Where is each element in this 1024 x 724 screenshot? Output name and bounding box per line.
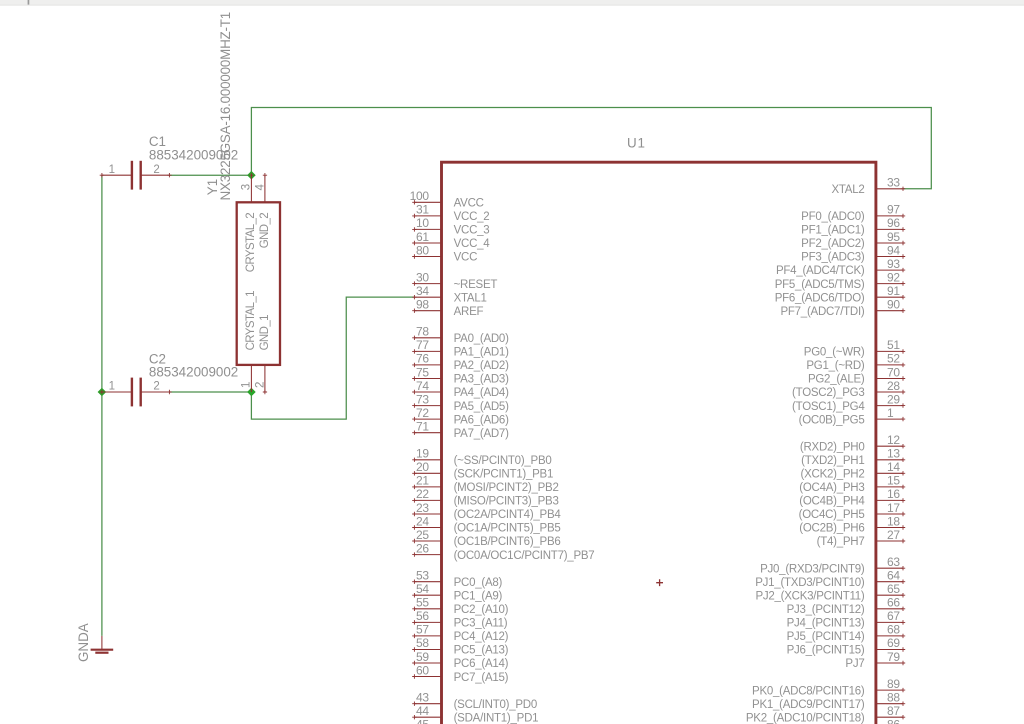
U1 pin 12 ((RXD2)_PH0) right (800, 433, 905, 453)
U1 pin 23 ((OC2A/PCINT4)_PB4) left (412, 501, 561, 521)
svg-text:28: 28 (887, 379, 900, 393)
svg-text:66: 66 (887, 596, 900, 610)
svg-text:(SDA/INT1)_PD1: (SDA/INT1)_PD1 (454, 712, 539, 724)
wire net XTAL2: junction A up, across top, down to pin 33 (251, 107, 931, 188)
svg-text:NX3225GSA-16.000000MHZ-T1: NX3225GSA-16.000000MHZ-T1 (218, 12, 233, 201)
svg-text:PJ3_(PCINT12): PJ3_(PCINT12) (787, 604, 865, 616)
U1 pin 79 (PJ7) right (845, 650, 905, 670)
svg-text:88: 88 (887, 691, 900, 705)
U1 pin 15 ((OC4A)_PH3) right (799, 474, 905, 494)
svg-text:27: 27 (887, 528, 900, 542)
svg-text:PF7_(ADC7/TDI): PF7_(ADC7/TDI) (780, 306, 864, 318)
U1 pin 92 (PF5_(ADC5/TMS)) right (775, 270, 905, 290)
svg-text:2: 2 (153, 381, 159, 393)
svg-text:U1: U1 (627, 136, 646, 151)
svg-text:PA5_(AD5): PA5_(AD5) (454, 401, 509, 413)
wire net XTAL1: crystal pin1 junction B down, right, up to U1 pin 34 (251, 297, 414, 419)
svg-text:(OC1A/PCINT5)_PB5: (OC1A/PCINT5)_PB5 (454, 523, 561, 535)
svg-text:PF2_(ADC2): PF2_(ADC2) (801, 238, 865, 250)
svg-text:15: 15 (887, 474, 900, 488)
svg-text:43: 43 (416, 691, 429, 705)
svg-text:(T4)_PH7: (T4)_PH7 (817, 536, 865, 548)
U1 pin 13 ((TXD2)_PH1) right (801, 447, 905, 467)
svg-text:3: 3 (240, 184, 252, 190)
svg-text:PJ1_(TXD3/PCINT10): PJ1_(TXD3/PCINT10) (755, 577, 865, 589)
U1 pin 86 (PK3_(ADC11/PCINT19)) right (747, 718, 905, 724)
svg-text:PJ4_(PCINT13): PJ4_(PCINT13) (787, 618, 865, 630)
svg-text:AREF: AREF (454, 306, 484, 318)
U1 pin 53 (PC0_(A8)) left (412, 569, 502, 589)
svg-text:PC0_(A8): PC0_(A8) (454, 577, 503, 589)
svg-text:51: 51 (887, 338, 900, 352)
U1 pin 72 (PA6_(AD6)) left (412, 406, 509, 426)
U1 pin 65 (PJ2_(XCK3/PCINT11)) right (755, 582, 905, 603)
U1 pin 59 (PC6_(A14)) left (412, 650, 508, 670)
U1 pin 87 (PK2_(ADC10/PCINT18)) right (746, 704, 905, 724)
svg-text:93: 93 (887, 257, 900, 271)
U1 pin 26 ((OC0A/OC1C/PCINT7)_PB7) left (412, 541, 594, 561)
crystal Y1 pin 2 (bottom, GND_1) (263, 365, 267, 394)
svg-text:PK1_(ADC9/PCINT17): PK1_(ADC9/PCINT17) (752, 699, 865, 711)
svg-text:GNDA: GNDA (76, 623, 91, 662)
svg-text:XTAL1: XTAL1 (454, 292, 487, 304)
svg-text:4: 4 (254, 184, 266, 191)
U1 pin 63 (PJ0_(RXD3/PCINT9)) right (760, 555, 905, 575)
svg-text:PC4_(A12): PC4_(A12) (454, 631, 509, 643)
svg-text:57: 57 (416, 623, 429, 637)
svg-text:98: 98 (416, 298, 429, 312)
svg-text:AVCC: AVCC (454, 198, 484, 210)
svg-text:(OC2B)_PH6: (OC2B)_PH6 (799, 523, 864, 535)
svg-text:PF0_(ADC0): PF0_(ADC0) (801, 211, 865, 223)
svg-text:VCC_4: VCC_4 (454, 238, 491, 250)
U1 pin 56 (PC3_(A11)) left (412, 609, 508, 630)
svg-text:GND_1: GND_1 (259, 315, 271, 351)
U1 pin 96 (PF1_(ADC1)) right (801, 216, 905, 236)
U1 pin 25 ((OC1B/PCINT6)_PB6) left (412, 528, 560, 548)
svg-text:CRYSTAL_1: CRYSTAL_1 (245, 291, 257, 351)
svg-text:(OC0A/OC1C/PCINT7)_PB7: (OC0A/OC1C/PCINT7)_PB7 (454, 550, 595, 562)
U1 pin 43 ((SCL/INT0)_PD0) left (412, 691, 537, 711)
svg-text:(~SS/PCINT0)_PB0: (~SS/PCINT0)_PB0 (454, 455, 552, 467)
svg-text:90: 90 (887, 298, 900, 312)
U1 pin 93 (PF4_(ADC4/TCK)) right (776, 257, 905, 277)
svg-text:PF5_(ADC5/TMS): PF5_(ADC5/TMS) (775, 279, 865, 291)
svg-text:PJ5_(PCINT14): PJ5_(PCINT14) (787, 631, 865, 643)
U1 pin 58 (PC5_(A13)) left (412, 636, 508, 657)
U1 pin 78 (PA0_(AD0)) left (412, 325, 509, 345)
U1 pin 70 (PG2_(ALE)) right (808, 365, 905, 385)
svg-text:PF4_(ADC4/TCK): PF4_(ADC4/TCK) (776, 265, 865, 277)
svg-text:13: 13 (887, 447, 900, 461)
svg-text:71: 71 (416, 420, 429, 434)
svg-text:97: 97 (887, 203, 900, 217)
svg-text:(OC4C)_PH5: (OC4C)_PH5 (799, 509, 865, 521)
U1 pin 64 (PJ1_(TXD3/PCINT10)) right (755, 569, 905, 589)
svg-text:(OC2A/PCINT4)_PB4: (OC2A/PCINT4)_PB4 (454, 509, 562, 521)
svg-text:94: 94 (887, 243, 900, 257)
svg-text:PC3_(A11): PC3_(A11) (454, 618, 508, 630)
U1 pin 69 (PJ6_(PCINT15)) right (787, 636, 906, 657)
svg-text:74: 74 (416, 379, 429, 393)
U1 pin 97 (PF0_(ADC0)) right (801, 203, 905, 223)
svg-text:PG0_(~WR): PG0_(~WR) (804, 347, 865, 359)
crystal Y1 pin 3 (top, CRYSTAL_2) (249, 173, 253, 202)
wire C2 pin2 to junction B (169, 391, 251, 393)
svg-text:56: 56 (416, 609, 429, 623)
IC U1 ATmega2560 body (442, 162, 876, 724)
U1 pin 18 ((OC2B)_PH6) right (799, 514, 905, 534)
svg-text:73: 73 (416, 392, 429, 406)
U1 pin 71 (PA7_(AD7)) left (412, 420, 509, 440)
U1 pin 34 (XTAL1) left (412, 284, 486, 304)
U1 pin 52 (PG1_(~RD)) right (806, 352, 905, 372)
svg-text:65: 65 (887, 582, 900, 596)
U1 pin 20 ((SCK/PCINT1)_PB1) left (412, 460, 553, 480)
svg-text:PA6_(AD6): PA6_(AD6) (454, 414, 509, 426)
U1 pin 73 (PA5_(AD5)) left (412, 392, 509, 412)
svg-text:34: 34 (416, 284, 429, 298)
U1 pin 88 (PK1_(ADC9/PCINT17)) right (752, 691, 905, 711)
U1 pin 89 (PK0_(ADC8/PCINT16)) right (752, 677, 905, 697)
svg-text:72: 72 (416, 406, 429, 420)
svg-text:24: 24 (416, 514, 429, 528)
svg-text:(SCL/INT0)_PD0: (SCL/INT0)_PD0 (454, 699, 537, 711)
crystal Y1 pin 4 (top, GND_2) (263, 173, 267, 202)
svg-text:2: 2 (254, 382, 266, 388)
svg-text:25: 25 (416, 528, 429, 542)
U1 pin 57 (PC4_(A12)) left (412, 623, 508, 643)
svg-text:80: 80 (416, 243, 429, 257)
U1 pin 1 ((OC0B)_PG5) right (799, 406, 906, 426)
U1 pin 66 (PJ3_(PCINT12)) right (787, 596, 906, 616)
U1 pin 27 ((T4)_PH7) right (817, 528, 906, 548)
U1 pin 54 (PC1_(A9)) left (412, 582, 502, 603)
svg-text:20: 20 (416, 460, 429, 474)
svg-text:(OC0B)_PG5: (OC0B)_PG5 (799, 414, 865, 426)
U1 pin 98 (AREF) left (412, 298, 483, 318)
svg-text:18: 18 (887, 514, 900, 528)
svg-text:PC5_(A13): PC5_(A13) (454, 645, 509, 657)
svg-text:21: 21 (416, 474, 429, 488)
svg-text:78: 78 (416, 325, 429, 339)
svg-text:CRYSTAL_2: CRYSTAL_2 (245, 213, 257, 273)
svg-text:45: 45 (416, 718, 429, 724)
ground GNDA symbol (91, 636, 114, 653)
svg-text:30: 30 (416, 270, 429, 284)
svg-text:(MISO/PCINT3)_PB3: (MISO/PCINT3)_PB3 (454, 496, 559, 508)
U1 origin cross (656, 579, 663, 586)
U1 pin 67 (PJ4_(PCINT13)) right (787, 609, 906, 630)
U1 pin 31 (VCC_2) left (412, 203, 489, 223)
svg-text:95: 95 (887, 230, 900, 244)
svg-text:PF1_(ADC1): PF1_(ADC1) (801, 225, 865, 237)
svg-text:68: 68 (887, 623, 900, 637)
svg-text:PA4_(AD4): PA4_(AD4) (454, 387, 509, 399)
U1 pin 28 ((TOSC2)_PG3) right (792, 379, 905, 399)
svg-text:1: 1 (109, 164, 115, 176)
wire GNDA net: C1 pin1 down to ground symbol (101, 175, 103, 636)
svg-text:55: 55 (416, 596, 429, 610)
junction C (C2 pin1 / GNDA net) (98, 388, 107, 397)
svg-text:PA0_(AD0): PA0_(AD0) (454, 333, 509, 345)
U1 pin 22 ((MISO/PCINT3)_PB3) left (412, 487, 558, 507)
U1 pin 29 ((TOSC1)_PG4) right (792, 392, 905, 412)
svg-text:53: 53 (416, 569, 429, 583)
svg-text:PK2_(ADC10/PCINT18): PK2_(ADC10/PCINT18) (746, 712, 865, 724)
svg-text:~RESET: ~RESET (454, 279, 498, 291)
U1 pin 21 ((MOSI/PCINT2)_PB2) left (412, 474, 558, 494)
junction B (crystal pin1 / C2 / XTAL1) (247, 388, 256, 397)
junction A (crystal pin3 / C1 / XTAL2) (247, 171, 256, 180)
svg-text:63: 63 (887, 555, 900, 569)
svg-text:PA2_(AD2): PA2_(AD2) (454, 360, 509, 372)
svg-text:59: 59 (416, 650, 429, 664)
U1 pin 14 ((XCK2)_PH2) right (801, 460, 906, 480)
svg-text:PJ7: PJ7 (845, 658, 864, 670)
U1 pin 51 (PG0_(~WR)) right (804, 338, 905, 358)
svg-text:PC6_(A14): PC6_(A14) (454, 658, 509, 670)
svg-text:70: 70 (887, 365, 900, 379)
svg-text:PJ0_(RXD3/PCINT9): PJ0_(RXD3/PCINT9) (760, 563, 865, 575)
svg-text:PF3_(ADC3): PF3_(ADC3) (801, 252, 865, 264)
svg-text:10: 10 (416, 216, 429, 230)
svg-text:PC1_(A9): PC1_(A9) (454, 591, 503, 603)
svg-text:100: 100 (410, 189, 430, 203)
svg-text:23: 23 (416, 501, 429, 515)
svg-text:29: 29 (887, 392, 900, 406)
svg-text:(TOSC2)_PG3: (TOSC2)_PG3 (792, 387, 864, 399)
U1 pin 94 (PF3_(ADC3)) right (801, 243, 905, 263)
svg-text:22: 22 (416, 487, 429, 501)
U1 pin 80 (VCC) left (412, 243, 477, 263)
svg-text:(OC4B)_PH4: (OC4B)_PH4 (799, 496, 865, 508)
svg-text:PA1_(AD1): PA1_(AD1) (454, 347, 509, 359)
svg-text:PA7_(AD7): PA7_(AD7) (454, 428, 509, 440)
U1 pin 61 (VCC_4) left (412, 230, 490, 250)
svg-text:33: 33 (887, 176, 900, 190)
svg-text:1: 1 (109, 381, 115, 393)
svg-text:(OC1B/PCINT6)_PB6: (OC1B/PCINT6)_PB6 (454, 536, 561, 548)
U1 pin 24 ((OC1A/PCINT5)_PB5) left (412, 514, 560, 534)
U1 pin 19 ((~SS/PCINT0)_PB0) left (412, 447, 551, 467)
U1 pin 100 (AVCC) left (410, 189, 484, 209)
svg-text:52: 52 (887, 352, 900, 366)
svg-text:(SCK/PCINT1)_PB1: (SCK/PCINT1)_PB1 (454, 469, 554, 481)
svg-text:14: 14 (887, 460, 900, 474)
svg-text:12: 12 (887, 433, 900, 447)
svg-text:2: 2 (153, 164, 159, 176)
crystal Y1 body (237, 202, 280, 365)
U1 pin 44 ((SDA/INT1)_PD1) left (412, 704, 538, 724)
svg-text:64: 64 (887, 569, 900, 583)
svg-text:19: 19 (416, 447, 429, 461)
wire C1 pin2 to junction A (169, 174, 251, 176)
svg-text:PC2_(A10): PC2_(A10) (454, 604, 509, 616)
svg-text:PF6_(ADC6/TDO): PF6_(ADC6/TDO) (775, 292, 865, 304)
svg-text:67: 67 (887, 609, 900, 623)
svg-text:75: 75 (416, 365, 429, 379)
svg-text:96: 96 (887, 216, 900, 230)
U1 pin 10 (VCC_3) left (412, 216, 489, 236)
U1 pin 76 (PA2_(AD2)) left (412, 352, 509, 372)
crystal Y1 pin 1 (bottom, CRYSTAL_1) (250, 365, 252, 392)
svg-text:76: 76 (416, 352, 429, 366)
U1 pin 74 (PA4_(AD4)) left (412, 379, 509, 399)
svg-text:PC7_(A15): PC7_(A15) (454, 672, 509, 684)
U1 pin 91 (PF6_(ADC6/TDO)) right (775, 284, 905, 304)
svg-text:PJ2_(XCK3/PCINT11): PJ2_(XCK3/PCINT11) (755, 591, 864, 603)
svg-text:PK0_(ADC8/PCINT16): PK0_(ADC8/PCINT16) (752, 685, 865, 697)
U1 pin 75 (PA3_(AD3)) left (412, 365, 509, 385)
U1 pin 77 (PA1_(AD1)) left (412, 338, 509, 358)
U1 pin 16 ((OC4B)_PH4) right (799, 487, 905, 507)
U1 pin 95 (PF2_(ADC2)) right (801, 230, 905, 250)
svg-text:87: 87 (887, 704, 900, 718)
svg-text:VCC: VCC (454, 252, 478, 264)
svg-text:PA3_(AD3): PA3_(AD3) (454, 374, 509, 386)
U1 pin 30 (~RESET) left (412, 270, 497, 290)
svg-text:PG1_(~RD): PG1_(~RD) (806, 360, 865, 372)
svg-text:60: 60 (416, 663, 429, 677)
svg-text:92: 92 (887, 270, 900, 284)
svg-text:1: 1 (887, 406, 894, 420)
U1 pin 33 (XTAL2) right (831, 176, 905, 196)
U1 pin 45 ((RXD1/INT2)_PD2) left (412, 718, 545, 724)
U1 pin 60 (PC7_(A15)) left (412, 663, 508, 684)
U1 pin 68 (PJ5_(PCINT14)) right (787, 623, 906, 643)
svg-text:(XCK2)_PH2: (XCK2)_PH2 (801, 469, 865, 481)
svg-text:69: 69 (887, 636, 900, 650)
U1 pin 17 ((OC4C)_PH5) right (799, 501, 906, 521)
svg-text:89: 89 (887, 677, 900, 691)
svg-text:91: 91 (887, 284, 900, 298)
capacitor C1 (100, 161, 172, 190)
svg-text:(MOSI/PCINT2)_PB2: (MOSI/PCINT2)_PB2 (454, 482, 559, 494)
svg-text:XTAL2: XTAL2 (831, 184, 864, 196)
svg-text:885342009002: 885342009002 (149, 365, 238, 380)
svg-text:31: 31 (416, 203, 429, 217)
U1 pin 90 (PF7_(ADC7/TDI)) right (780, 298, 905, 318)
svg-text:1: 1 (240, 382, 252, 388)
svg-text:86: 86 (887, 718, 900, 724)
svg-text:61: 61 (416, 230, 429, 244)
svg-text:16: 16 (887, 487, 900, 501)
U1 pin 55 (PC2_(A10)) left (412, 596, 508, 616)
svg-text:54: 54 (416, 582, 429, 596)
svg-text:79: 79 (887, 650, 900, 664)
svg-text:VCC_2: VCC_2 (454, 211, 490, 223)
svg-text:(TXD2)_PH1: (TXD2)_PH1 (801, 455, 864, 467)
svg-text:58: 58 (416, 636, 429, 650)
svg-text:GND_2: GND_2 (259, 213, 271, 249)
svg-text:(OC4A)_PH3: (OC4A)_PH3 (799, 482, 864, 494)
svg-text:44: 44 (416, 704, 429, 718)
svg-text:17: 17 (887, 501, 900, 515)
svg-text:VCC_3: VCC_3 (454, 225, 490, 237)
svg-text:PJ6_(PCINT15): PJ6_(PCINT15) (787, 645, 865, 657)
capacitor C2 (100, 378, 172, 407)
svg-text:(RXD2)_PH0: (RXD2)_PH0 (800, 441, 865, 453)
svg-text:26: 26 (416, 541, 429, 555)
svg-text:(TOSC1)_PG4: (TOSC1)_PG4 (792, 401, 865, 413)
svg-text:77: 77 (416, 338, 429, 352)
svg-text:PG2_(ALE): PG2_(ALE) (808, 374, 865, 386)
